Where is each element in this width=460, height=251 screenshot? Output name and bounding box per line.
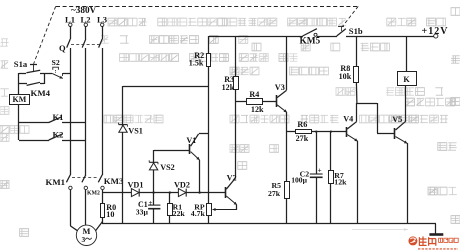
wire VS2 branch vertical xyxy=(153,150,155,193)
transistor V1 base bar xyxy=(189,144,191,154)
wire rectified node xyxy=(102,192,226,194)
svg-text:VS1: VS1 xyxy=(128,127,143,136)
wire top rail left section xyxy=(209,36,303,38)
svg-text:10k: 10k xyxy=(339,72,352,81)
svg-text:S1b: S1b xyxy=(349,26,363,36)
capacitor C2 top lead xyxy=(316,132,318,174)
relay K coil xyxy=(398,72,417,86)
resistor R1 bottom lead xyxy=(169,216,171,224)
switch S1b blade xyxy=(337,29,346,36)
wire L3 drop to Q xyxy=(102,26,104,39)
resistor R4 xyxy=(247,99,263,105)
capacitor C1 plates xyxy=(148,204,160,206)
zener VS2 xyxy=(149,161,158,163)
resistor R7 bottom lead xyxy=(330,184,332,224)
wire S1a to S2 xyxy=(40,73,52,75)
svg-text:V4: V4 xyxy=(343,115,353,124)
wire S2 to phase1 xyxy=(63,73,70,75)
svg-text:KM4: KM4 xyxy=(31,88,51,98)
wire R0 to motor diagonal xyxy=(95,222,102,232)
contact KM5 terminal xyxy=(314,33,317,36)
transistor V5 collector xyxy=(396,121,406,130)
capacitor C2 bottom lead xyxy=(316,177,318,224)
svg-text:VD2: VD2 xyxy=(174,180,190,189)
svg-text:27k: 27k xyxy=(268,189,281,198)
contact KM1 lower terminal pole1 xyxy=(69,186,72,189)
node R1 junction xyxy=(169,191,171,193)
svg-text:33µ: 33µ xyxy=(136,207,149,216)
resistor R2 xyxy=(207,54,211,67)
capacitor C1 top lead xyxy=(153,193,155,205)
contact KM4 blade xyxy=(27,82,40,85)
switch S2 pushbutton head xyxy=(53,67,59,70)
svg-text:4.7k: 4.7k xyxy=(191,209,206,218)
wire VS1 top to R2 node xyxy=(123,86,209,88)
node C2 tap xyxy=(315,131,317,133)
wire left rail lower xyxy=(18,104,20,140)
resistor R5 xyxy=(285,182,290,199)
resistor R2 top lead xyxy=(208,36,210,53)
switch S2 fixed contact tick xyxy=(62,73,64,76)
resistor R6 xyxy=(296,130,312,134)
switch Q blade pole3 xyxy=(99,39,103,48)
switch Q linkage dashes xyxy=(71,44,100,46)
svg-text:100µ: 100µ xyxy=(291,175,307,184)
resistor R7 xyxy=(329,171,334,184)
wire phase1 motor diagonal xyxy=(70,226,77,231)
svg-text:R4: R4 xyxy=(249,90,259,99)
resistor R3 xyxy=(234,77,239,90)
switch S2 blade with arrow xyxy=(52,73,63,78)
switch Q blade pole1 xyxy=(67,39,71,48)
wire KM4 right xyxy=(40,83,44,85)
node V1 emitter junction xyxy=(198,191,200,193)
svg-text:K: K xyxy=(403,75,410,84)
wire V1 emitter down xyxy=(199,160,201,193)
svg-text:+: + xyxy=(318,166,322,174)
wire c3 to node A xyxy=(102,190,104,193)
resistor R8 xyxy=(354,67,359,83)
diode VD1 xyxy=(131,189,139,197)
wire L1 drop to Q xyxy=(70,26,72,39)
svg-text:KM2: KM2 xyxy=(87,191,100,197)
wire phase1 vertical xyxy=(70,48,72,175)
motor M xyxy=(76,225,96,245)
svg-text:12k: 12k xyxy=(251,105,264,114)
wire V3 emitter / R5 top xyxy=(286,112,288,181)
wire R4 to V3 base xyxy=(263,101,276,103)
svg-text:12k: 12k xyxy=(222,83,235,92)
wire top rail right section xyxy=(346,36,434,38)
transistor V5 emitter arrow xyxy=(396,137,408,144)
wire K1 left xyxy=(19,122,49,124)
zener VS1 xyxy=(119,124,128,126)
contact K2 blade xyxy=(49,134,62,140)
wire down to V5 base xyxy=(377,103,379,133)
contact linkage dashes KM1-KM3 xyxy=(72,177,99,179)
wire - mechanical linkage dashed line S1a-S1b xyxy=(56,6,358,8)
transistor V3 collector xyxy=(277,90,287,97)
transistor V1 emitter arrow xyxy=(191,152,200,160)
svg-text:10: 10 xyxy=(106,210,114,219)
wire KM4 up to main xyxy=(44,73,46,84)
capacitor C2 plates xyxy=(310,173,323,175)
transistor V3 base bar xyxy=(276,95,278,107)
svg-text:±: ± xyxy=(149,199,153,207)
wire phase3 vertical xyxy=(102,48,104,175)
wire V1 collector to R2 node xyxy=(199,133,209,135)
wire left rail upper xyxy=(18,73,20,94)
node C1/VS2 junction xyxy=(152,191,154,193)
wire ground rail xyxy=(102,223,436,225)
switch Q blade pole2 xyxy=(82,39,86,48)
wire K2 left xyxy=(19,140,49,142)
wire K2 to phase2 xyxy=(62,140,86,142)
svg-text:V3: V3 xyxy=(275,83,285,92)
wire R2 to RP xyxy=(208,67,210,203)
contact KM1 blade pole1 xyxy=(66,175,70,183)
resistor R8 top lead xyxy=(356,36,358,66)
resistor R0 xyxy=(101,204,105,218)
contact KM3 blade xyxy=(98,175,102,183)
svg-text:S2: S2 xyxy=(52,58,60,67)
svg-text:1.5k: 1.5k xyxy=(189,58,204,67)
capacitor C1 bottom lead xyxy=(153,209,155,224)
svg-text:12k: 12k xyxy=(334,178,347,187)
wire phase1 to motor xyxy=(70,190,72,226)
wire phase2 to motor xyxy=(85,190,87,225)
transistor V4 base bar xyxy=(346,127,348,137)
contact KM5 blade xyxy=(303,29,317,36)
svg-text:3: 3 xyxy=(82,235,86,244)
transistor V5 base bar xyxy=(394,128,396,139)
wire to KM4 xyxy=(19,83,27,85)
wire to R4 xyxy=(236,101,246,103)
svg-text:VS2: VS2 xyxy=(160,163,175,172)
node L1 terminal xyxy=(69,23,72,26)
svg-text:KM: KM xyxy=(13,95,27,104)
wire to R6 xyxy=(287,131,295,133)
potentiometer RP xyxy=(207,204,212,216)
transistor V4 collector xyxy=(347,121,357,129)
wire - dashed linkage down to S1b xyxy=(342,6,358,27)
diode VD2 xyxy=(178,189,186,197)
wire R6 to V4 base xyxy=(312,131,346,133)
wire R0 bottom xyxy=(102,217,104,224)
wire L2 drop to Q xyxy=(85,26,87,39)
resistor R5 bottom lead xyxy=(286,198,288,224)
contact K1 blade xyxy=(49,117,62,123)
svg-text:KM5: KM5 xyxy=(300,37,321,47)
svg-text:V5: V5 xyxy=(392,115,402,124)
switch S1a blade xyxy=(26,70,40,73)
resistor R8 bottom lead xyxy=(355,82,358,103)
wire V3 collector to rail xyxy=(286,36,288,90)
wire to S1a xyxy=(19,73,26,75)
resistor R1 xyxy=(168,204,173,216)
wire VS1 branch vertical xyxy=(122,86,124,193)
svg-text:27k: 27k xyxy=(296,134,309,143)
wire R3 to V2 collector xyxy=(235,90,237,178)
node L3 terminal xyxy=(101,23,104,26)
node R7 tap xyxy=(330,131,332,133)
contact KM1 blade pole2 xyxy=(82,175,86,183)
svg-text:22k: 22k xyxy=(173,209,186,218)
coil KM contactor xyxy=(10,95,30,105)
wire K1 to phase2 xyxy=(62,122,86,124)
wire R8 node to V5 base branch xyxy=(357,103,377,105)
relay K top lead xyxy=(406,36,408,72)
resistor R3 top lead xyxy=(235,36,237,76)
switch S1b actuator tick xyxy=(338,26,344,28)
svg-text:KM1: KM1 xyxy=(46,177,66,187)
wire - dashed linkage down to S1a xyxy=(34,6,56,64)
svg-text:+12V: +12V xyxy=(422,26,449,37)
decorative faint line xyxy=(352,229,408,231)
transistor V2 emitter arrow xyxy=(226,196,237,205)
potentiometer RP wiper arrow xyxy=(213,209,237,211)
svg-text:Q: Q xyxy=(59,43,66,53)
wire VS2 to V1 base xyxy=(154,150,189,152)
wire to ground symbol xyxy=(435,224,437,234)
wire node line to ground rail xyxy=(122,193,124,224)
svg-text:KM3: KM3 xyxy=(104,176,124,186)
transistor V2 collector xyxy=(226,178,236,190)
contact KM3 lower terminal xyxy=(101,186,104,189)
svg-text:R6: R6 xyxy=(297,120,307,129)
wire V5 collector to K xyxy=(405,85,407,121)
potentiometer RP bottom lead xyxy=(208,216,210,224)
switch S1a actuator tick xyxy=(30,64,37,66)
wire node A to R0 xyxy=(102,193,104,204)
wire V5 emitter to ground xyxy=(407,143,409,224)
wire phase2 vertical xyxy=(85,48,87,175)
wire V2 emitter bend xyxy=(236,205,238,210)
transistor V3 emitter arrow xyxy=(277,105,287,113)
ground symbol xyxy=(429,233,443,236)
wire to V5 base xyxy=(377,133,395,135)
node +12V terminal xyxy=(434,34,438,38)
wire top rail mid section xyxy=(317,36,337,38)
wire V4 emitter to ground xyxy=(357,141,359,224)
decorative red site logo xyxy=(408,236,458,249)
resistor R7 top lead xyxy=(330,132,332,170)
contact KM1 lower terminal pole2 xyxy=(84,186,87,189)
transistor V2 base bar xyxy=(225,187,227,198)
transistor V1 collector xyxy=(191,134,199,146)
svg-text:VD1: VD1 xyxy=(128,181,144,190)
resistor R1 top lead xyxy=(169,193,171,203)
transistor V4 emitter arrow xyxy=(347,135,358,142)
svg-text:S1a: S1a xyxy=(14,59,28,69)
wire V4 collector up xyxy=(356,103,358,121)
node L2 terminal xyxy=(84,23,87,26)
